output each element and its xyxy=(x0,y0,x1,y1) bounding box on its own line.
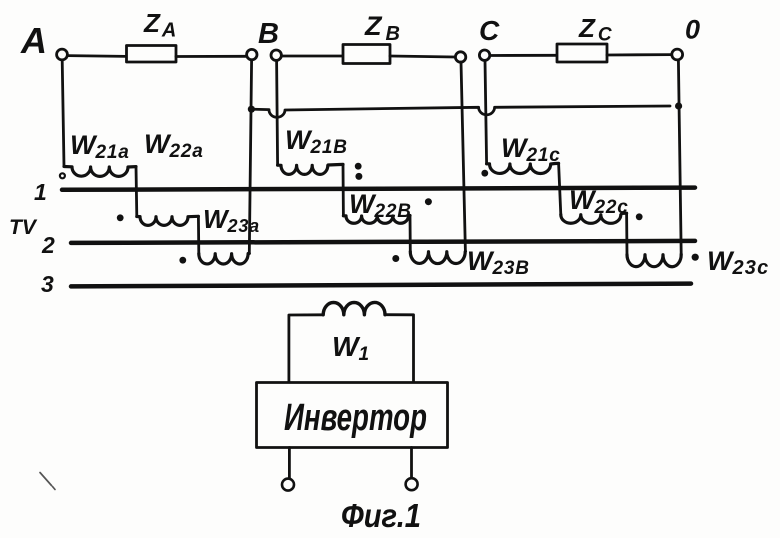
svg-text:W22B: W22B xyxy=(349,189,412,222)
wire W21B to W22B vertical xyxy=(342,164,345,215)
svg-text:W23B: W23B xyxy=(467,246,530,279)
svg-text:ZC: ZC xyxy=(578,13,612,46)
wire phase B vertical from terminal B right down to W21B xyxy=(277,60,278,165)
bus line 2 xyxy=(71,241,695,243)
winding W22B xyxy=(343,216,410,224)
svg-text:3: 3 xyxy=(41,271,54,297)
wire W21a to W22a vertical xyxy=(135,167,139,217)
svg-text:TV: TV xyxy=(9,216,38,239)
terminal A xyxy=(57,49,68,60)
second horizontal wire B to 0 with hops xyxy=(251,106,670,117)
wire ZC to 0 xyxy=(607,53,672,56)
winding W22C xyxy=(561,213,627,223)
wire ZA to B xyxy=(176,55,246,58)
winding W21a xyxy=(64,167,136,177)
wire W23a up to terminal B left xyxy=(249,60,251,253)
impedance ZC xyxy=(557,44,607,62)
stray pen mark xyxy=(40,473,55,490)
polarity dot W22C xyxy=(636,213,643,220)
wire A to ZA xyxy=(68,54,126,58)
terminal 0 xyxy=(672,49,683,60)
svg-text:W23c: W23c xyxy=(707,246,769,279)
svg-text:W23a: W23a xyxy=(203,204,260,236)
junction dot node B on second line xyxy=(248,106,255,113)
winding W23C xyxy=(627,254,681,266)
wire W1 loop right xyxy=(385,315,414,383)
svg-text:2: 2 xyxy=(41,232,55,258)
junction dot node 0 on second line xyxy=(675,102,682,109)
svg-text:W1: W1 xyxy=(332,331,370,365)
wire phase C vertical from terminal C right down to W21C xyxy=(485,60,487,163)
wire W23B up to terminal C left xyxy=(461,62,465,251)
wire B to ZB xyxy=(282,55,343,58)
polarity dot W21C xyxy=(481,170,488,177)
svg-text:C: C xyxy=(479,15,500,46)
polarity dot W23B xyxy=(392,255,399,262)
svg-text:W21B: W21B xyxy=(285,125,348,158)
svg-text:ZB: ZB xyxy=(364,11,400,45)
terminal C left xyxy=(455,52,465,62)
wire W22a to W23a vertical xyxy=(197,216,200,253)
terminal B left xyxy=(247,49,257,59)
impedance ZA xyxy=(127,46,177,63)
bus line 3 xyxy=(71,284,691,287)
svg-text:Инвертор: Инвертор xyxy=(284,397,427,439)
wire W22B to W23B vertical xyxy=(409,216,412,252)
svg-text:0: 0 xyxy=(685,15,700,45)
winding W23B xyxy=(410,251,465,263)
winding W21B xyxy=(278,164,343,174)
impedance ZB xyxy=(343,45,390,64)
polarity dot pair W21B xyxy=(355,163,362,170)
wire W23C up to terminal 0 xyxy=(678,60,681,254)
svg-text:ZA: ZA xyxy=(143,8,176,42)
wire ZB to C xyxy=(390,56,455,57)
terminal inverter left xyxy=(282,479,294,491)
wire W1 loop left xyxy=(289,315,323,383)
inverter box xyxy=(257,383,448,448)
polarity dot W23C xyxy=(692,254,699,261)
svg-text:A: A xyxy=(20,20,47,61)
wire C to ZC xyxy=(490,54,557,57)
winding W21C xyxy=(487,163,559,173)
svg-text:B: B xyxy=(258,18,279,50)
wire W22C to W23C vertical xyxy=(625,213,628,254)
wire W21C to W22C vertical xyxy=(559,163,561,214)
terminal B right xyxy=(271,50,281,60)
wire inverter output left xyxy=(288,448,291,478)
svg-text:1: 1 xyxy=(34,179,47,205)
terminal C right xyxy=(479,50,489,60)
bus line 1 xyxy=(62,188,695,190)
winding W23a xyxy=(199,253,250,264)
winding W22a xyxy=(137,216,199,225)
wire inverter output right xyxy=(410,448,413,478)
polarity dot W22B xyxy=(425,198,432,205)
polarity dot W23a xyxy=(179,257,186,264)
svg-text:W22a: W22a xyxy=(144,129,204,162)
wire phase A vertical from terminal A down to W21a xyxy=(62,60,64,167)
polarity dot W21a xyxy=(60,173,65,178)
terminal inverter right xyxy=(406,478,418,490)
svg-text:W21a: W21a xyxy=(70,130,130,163)
winding W1 xyxy=(323,302,385,314)
polarity dot W22a xyxy=(117,214,124,221)
svg-text:Фиг.1: Фиг.1 xyxy=(341,497,421,534)
svg-text:W21c: W21c xyxy=(501,133,561,166)
